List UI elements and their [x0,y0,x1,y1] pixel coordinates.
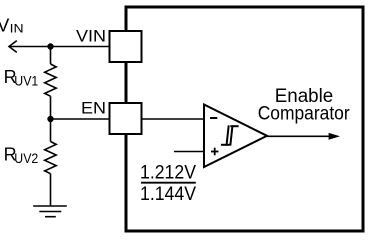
ground [33,206,67,217]
wire EN pin to comparator inverting input [142,118,205,120]
minus input label [210,117,217,119]
node A (VIN divider tap) [47,43,53,49]
svg-text:IN: IN [10,22,24,36]
svg-text:UV2: UV2 [14,151,38,166]
svg-text:V: V [0,15,10,36]
svg-text:UV1: UV1 [14,74,38,89]
resistor RUV2 [45,142,57,174]
wire reference to comparator non-inverting input [174,151,204,153]
arrow comparator output [329,133,340,140]
arrow to VIN source [9,41,17,53]
threshold divider line [141,182,196,184]
svg-text:Comparator: Comparator [258,104,351,125]
svg-text:EN: EN [81,99,106,118]
wire R_UV2 to ground [50,174,52,206]
op-amp U2 enable comparator [204,105,267,168]
wire node A to R_UV1 [50,47,52,65]
hysteresis symbol [221,125,239,145]
wire comparator output [267,135,330,137]
wire node B to EN pin [51,118,110,120]
svg-text:1.212V: 1.212V [140,163,196,184]
IC block U1 [126,7,363,231]
node B (EN tap) [47,116,53,122]
svg-text:VIN: VIN [76,26,106,45]
plus input label [211,148,219,156]
wire node B to R_UV2 [50,119,52,142]
wire R_UV1 to node B [50,96,52,119]
pin box EN [110,103,142,134]
svg-text:1.144V: 1.144V [140,184,196,205]
resistor RUV1 [45,64,57,96]
wire VIN horizontal [9,46,110,48]
pin box VIN [110,31,142,62]
